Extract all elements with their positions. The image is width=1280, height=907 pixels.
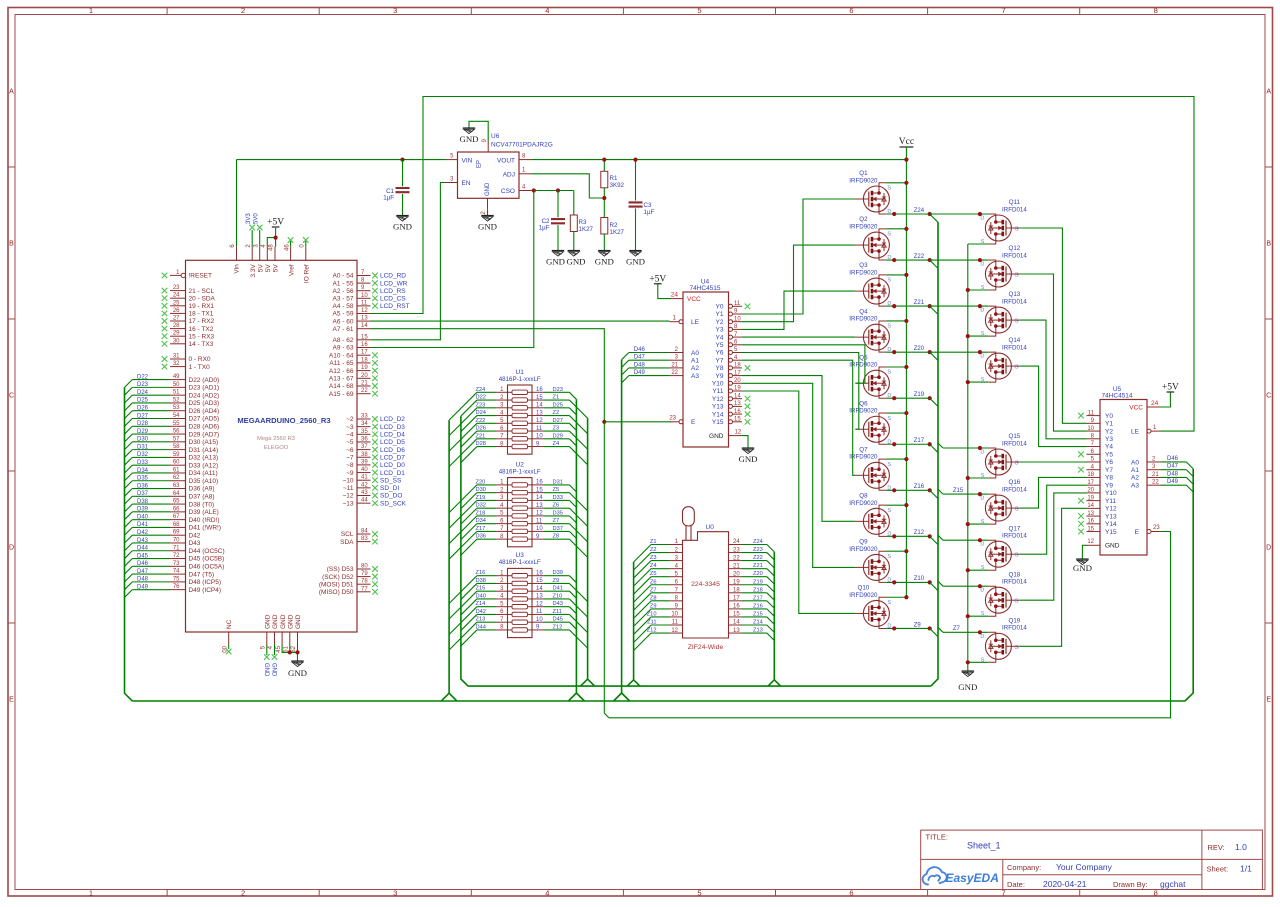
title block: [921, 830, 1263, 889]
svg-text:Z7: Z7: [553, 518, 560, 524]
svg-text:69: 69: [173, 530, 180, 536]
svg-text:13: 13: [536, 410, 543, 416]
wire Z18 at U2 pin 5: [477, 515, 496, 517]
svg-text:E: E: [1266, 697, 1271, 704]
svg-text:64: 64: [173, 491, 180, 497]
svg-text:Q14: Q14: [1009, 337, 1021, 344]
U3 pin 4: [496, 598, 508, 600]
regulator U6 NCV47701PDAJR2G body: [458, 152, 520, 198]
svg-text:12: 12: [735, 429, 742, 435]
svg-text:D23: D23: [553, 387, 563, 393]
svg-text:IRFD9020: IRFD9020: [849, 454, 878, 461]
wire A7 / E net vertical: [371, 329, 609, 718]
svg-text:D31: D31: [553, 479, 563, 485]
no-connect X U5 Y13: [1078, 513, 1084, 519]
MCU pin 7 A0 - 54: [357, 275, 371, 277]
U1 pin 15: [532, 399, 544, 401]
MCU pin 28 16 - TX2: [170, 328, 186, 330]
svg-text:12: 12: [361, 308, 368, 314]
svg-text:G: G: [1014, 645, 1018, 651]
U2 pin 3: [496, 499, 508, 501]
wire D41 at U3 pin 14: [544, 590, 569, 592]
svg-text:53: 53: [173, 405, 180, 411]
junction R1 top: [602, 158, 606, 162]
svg-text:U3: U3: [516, 552, 525, 559]
svg-text:D40: D40: [476, 593, 486, 599]
U2 pin 13: [532, 507, 544, 509]
wire Q9 drain / net Z10: [886, 581, 929, 583]
svg-text:23: 23: [1153, 525, 1160, 531]
wire U5 to Q18 gate: [1019, 493, 1086, 600]
svg-text:56: 56: [173, 429, 180, 435]
svg-text:SCL: SCL: [341, 531, 354, 538]
bus entry Z17: [930, 444, 938, 452]
U6 pin 3 EN: [446, 182, 458, 184]
svg-text:79: 79: [361, 571, 368, 577]
svg-text:D29 (AD7): D29 (AD7): [189, 431, 220, 438]
svg-text:Z17: Z17: [753, 595, 763, 601]
U1 pin 7: [496, 438, 508, 440]
svg-text:D30: D30: [476, 487, 486, 493]
MCU pin 35 ~4: [357, 433, 371, 435]
svg-text:12: 12: [1087, 539, 1094, 545]
wire D34 with bus entry: [132, 472, 170, 474]
U3 pin 1: [496, 575, 508, 577]
U4 pin 22 A3: [670, 375, 684, 377]
svg-text:D22: D22: [137, 374, 149, 380]
wire 3.3V pin to net 3V3: [251, 230, 253, 247]
svg-text:15: 15: [536, 578, 543, 584]
svg-text:(MISO) D50: (MISO) D50: [319, 589, 354, 596]
svg-text:D49 (ICP4): D49 (ICP4): [189, 587, 222, 594]
MCU pin 55 D28 (AD6): [170, 425, 186, 427]
svg-text:A13 - 67: A13 - 67: [329, 376, 354, 383]
MCU pin 36 ~5: [357, 441, 371, 443]
wire Vcc rail vertical: [905, 160, 907, 598]
svg-text:Z20: Z20: [476, 479, 486, 485]
svg-text:Z24: Z24: [753, 539, 763, 545]
svg-text:5: 5: [697, 6, 701, 15]
MCU pin 22 A15 - 69: [357, 393, 371, 395]
svg-text:Q3: Q3: [859, 262, 868, 269]
junction C1: [400, 158, 404, 162]
svg-text:Z24: Z24: [914, 208, 925, 214]
svg-text:48: 48: [269, 244, 275, 251]
wire Z16 at U3 pin 1: [477, 575, 496, 577]
bus entry Z16: [930, 490, 938, 498]
svg-text:40: 40: [361, 467, 368, 473]
svg-text:IRFD9020: IRFD9020: [849, 270, 878, 277]
wire MCU GND pins to ground: [282, 644, 297, 652]
svg-text:GND: GND: [738, 454, 757, 464]
wire NMOS source chain to ground: [967, 244, 969, 671]
MCU pin 9 A2 - 56: [357, 290, 371, 292]
MCU pin 73 D46 (OC5A): [170, 565, 186, 567]
svg-text:Z16: Z16: [753, 603, 763, 609]
svg-text:D47: D47: [137, 569, 149, 575]
svg-text:IRFD014: IRFD014: [1002, 533, 1027, 540]
svg-text:A3: A3: [1131, 482, 1139, 489]
svg-text:11: 11: [536, 609, 543, 615]
U2 resistor element 3: [508, 499, 513, 501]
wire Z10 at U0: [651, 616, 669, 618]
svg-text:S: S: [887, 462, 891, 468]
U4 pin 18 Y8: [729, 366, 733, 370]
ground symbol (U6 GND): [481, 215, 493, 217]
wire D47 at U4 A1: [629, 359, 670, 361]
U4 pin 17 Y9: [729, 374, 733, 378]
wire Z7 at U2 pin 11: [544, 523, 569, 525]
no-connect X U5 Y14: [1078, 521, 1084, 527]
svg-text:11: 11: [672, 620, 679, 626]
ground symbol (U5): [1076, 558, 1088, 560]
U0 pin 5 Z5: [669, 576, 683, 578]
svg-text:D28: D28: [476, 441, 486, 447]
svg-text:Z15: Z15: [476, 586, 486, 592]
wire Z20 at U0: [742, 576, 767, 578]
MCU pin 70 D43: [170, 542, 186, 544]
U3 pin 9: [532, 629, 544, 631]
svg-text:30: 30: [173, 338, 180, 344]
wire Z2 at U1 pin 13: [544, 415, 569, 417]
no-connect X 3V3: [249, 225, 255, 231]
svg-text:~2: ~2: [346, 416, 354, 423]
MCU pin 1 !RESET: [170, 274, 186, 276]
svg-text:Z13: Z13: [476, 617, 486, 623]
U4 pin 15 Y15: [729, 420, 733, 424]
svg-text:REV:: REV:: [1208, 843, 1225, 852]
svg-text:68: 68: [173, 522, 180, 528]
MCU pin 49 D22 (AD0): [170, 379, 186, 381]
svg-text:GND: GND: [709, 433, 724, 440]
svg-text:D31 (A14): D31 (A14): [189, 447, 219, 454]
svg-text:Y0: Y0: [716, 304, 724, 311]
U4 pin 4 Y7: [729, 358, 733, 362]
transistor Q19 IRFD014 (N-MOSFET): [985, 633, 1011, 659]
svg-text:(SS) D53: (SS) D53: [327, 566, 354, 573]
U2 resistor element 5: [508, 515, 513, 517]
svg-text:4: 4: [545, 888, 549, 897]
wire U5 to Q15 gate: [1019, 461, 1086, 463]
svg-text:SD_SS: SD_SS: [380, 477, 402, 484]
U5 pin 13 Y13: [1087, 515, 1101, 517]
svg-text:5V: 5V: [273, 264, 280, 273]
svg-text:1: 1: [89, 888, 93, 897]
bus entry Z21: [930, 306, 938, 314]
svg-text:Y14: Y14: [1105, 521, 1117, 528]
wire Z21 to Q13 drain: [930, 305, 989, 307]
wire D28 at U1 pin 8: [477, 446, 496, 448]
wire D26 at U1 pin 6: [477, 430, 496, 432]
svg-text:Y6: Y6: [716, 350, 724, 357]
bus D46-D49 vertical (U5 side): [1185, 469, 1193, 701]
U5 pin 19 Y11: [1087, 500, 1101, 502]
svg-text:TITLE:: TITLE:: [926, 833, 949, 842]
wire U4 Y6 to Q6 gate: [742, 353, 859, 430]
wire D47 at U5 A1: [1161, 469, 1187, 471]
wire D49 at U5 A3: [1161, 484, 1187, 486]
svg-text:52: 52: [173, 397, 180, 403]
svg-text:13: 13: [733, 628, 740, 634]
U0 pin 9 Z9: [669, 608, 683, 610]
svg-text:IRFD9020: IRFD9020: [849, 500, 878, 507]
U3 pin 7: [496, 621, 508, 623]
wire D23 with bus entry: [132, 386, 170, 388]
svg-text:Z20: Z20: [914, 346, 925, 352]
no-connect X U5 Y0: [1078, 413, 1084, 419]
svg-text:U0: U0: [706, 524, 715, 531]
svg-text:80: 80: [361, 564, 368, 570]
svg-text:S: S: [887, 416, 891, 422]
svg-text:VCC: VCC: [687, 296, 701, 303]
junction Z12 b: [928, 534, 932, 538]
bus bottom inner (L1): [468, 685, 931, 687]
no-connect X 5V0: [257, 225, 263, 231]
svg-text:D34 (A11): D34 (A11): [189, 470, 218, 477]
wire Q8 drain / net Z12: [886, 535, 929, 537]
MCU pin 37 ~6: [357, 449, 371, 451]
svg-text:Z2: Z2: [553, 410, 560, 416]
svg-text:LCD_RST: LCD_RST: [380, 303, 410, 310]
svg-text:IRFD9020: IRFD9020: [849, 223, 878, 230]
MCU pin 42 ~11: [357, 487, 371, 489]
svg-text:Q17: Q17: [1009, 525, 1021, 532]
svg-text:3K92: 3K92: [610, 182, 625, 189]
svg-text:GND: GND: [566, 257, 585, 267]
wire CSO to MCU A9: [371, 191, 534, 348]
svg-text:G: G: [1014, 319, 1018, 325]
bus D22-D49 vertical: [125, 387, 133, 701]
MCU pin 19 A12 - 66: [357, 370, 371, 372]
svg-text:Z21: Z21: [476, 433, 486, 439]
junction S chain Q17: [966, 568, 970, 572]
svg-text:D36: D36: [137, 483, 149, 489]
junction Vcc-VOUT: [904, 158, 908, 162]
svg-text:D: D: [980, 450, 984, 456]
svg-text:D43: D43: [189, 540, 201, 547]
MCU pin 11 A4 - 58: [357, 305, 371, 307]
U3 resistor element 8: [508, 629, 513, 631]
svg-text:11: 11: [536, 426, 543, 432]
wire Z13 at U0: [742, 632, 767, 634]
svg-text:D25: D25: [137, 398, 149, 404]
junction Q18 drain: [978, 584, 982, 588]
svg-text:D47: D47: [634, 355, 646, 361]
svg-text:GND: GND: [263, 663, 269, 677]
svg-text:Y8: Y8: [1105, 475, 1113, 482]
svg-text:A3: A3: [691, 373, 699, 380]
wire D35 with bus entry: [132, 480, 170, 482]
svg-text:2: 2: [241, 6, 245, 15]
wire Q6 source to Vcc rail: [886, 412, 906, 414]
svg-text:11: 11: [734, 301, 741, 307]
svg-text:49: 49: [173, 374, 180, 380]
svg-text:31: 31: [173, 354, 180, 360]
U4 pin 8 Y3: [729, 327, 733, 331]
MCU pin 62 D35 (A10): [170, 480, 186, 482]
wire Z20 to Q14 drain: [930, 351, 989, 353]
junction rail Q10: [904, 595, 908, 599]
svg-text:5V0: 5V0: [254, 213, 260, 224]
svg-text:D44: D44: [476, 624, 486, 630]
U5 pin 21 A2: [1147, 476, 1161, 478]
svg-text:16 - TX2: 16 - TX2: [189, 326, 214, 333]
svg-text:~13: ~13: [342, 500, 353, 507]
svg-text:D33: D33: [137, 460, 149, 466]
svg-text:Z5: Z5: [553, 487, 560, 493]
wire Q4 drain / net Z20: [886, 351, 929, 353]
wire Z5 at U0: [651, 576, 669, 578]
svg-text:15: 15: [536, 395, 543, 401]
svg-text:14: 14: [536, 586, 543, 592]
svg-text:Z8: Z8: [650, 595, 657, 601]
wire D35 at U2 pin 12: [544, 515, 569, 517]
svg-text:D43: D43: [137, 538, 149, 544]
svg-text:D49: D49: [1167, 479, 1179, 485]
svg-text:VCC: VCC: [1129, 404, 1143, 411]
no-connect X U5 Y11: [1078, 498, 1084, 504]
svg-text:5V: 5V: [265, 264, 272, 273]
wire CSO node: [531, 190, 574, 192]
junction Z19 a: [892, 396, 896, 400]
svg-text:IRFD014: IRFD014: [1002, 252, 1027, 259]
wire Q6 drain / net Z17: [886, 443, 929, 445]
svg-text:LCD_D2: LCD_D2: [380, 416, 405, 423]
wire Z6 at U0: [651, 584, 669, 586]
wire D42 with bus entry: [132, 534, 170, 536]
MCU pin 77 (MISO) D50: [357, 591, 371, 593]
U0 pin 12 Z12: [669, 632, 683, 634]
svg-text:+5V: +5V: [649, 274, 666, 284]
wire Z1 at U1 pin 15: [544, 399, 569, 401]
svg-text:Y8: Y8: [716, 365, 724, 372]
U3 pin 3: [496, 590, 508, 592]
svg-text:2: 2: [241, 888, 245, 897]
svg-text:15: 15: [733, 612, 740, 618]
svg-text:D41: D41: [553, 586, 563, 592]
svg-text:D32: D32: [137, 452, 149, 458]
U0 pin 22 Z22: [729, 560, 743, 562]
svg-text:SD_DI: SD_DI: [380, 485, 399, 492]
svg-text:70: 70: [173, 537, 180, 543]
svg-text:Z12: Z12: [553, 624, 563, 630]
junction Q17 drain: [978, 538, 982, 542]
wire D32 with bus entry: [132, 456, 170, 458]
svg-text:Y6: Y6: [1105, 459, 1113, 466]
svg-text:25: 25: [173, 300, 180, 306]
svg-text:A: A: [9, 89, 14, 96]
MCU pin 0 IO Ref (top): [305, 247, 307, 260]
svg-text:A7 - 61: A7 - 61: [333, 326, 354, 333]
junction Z19 b: [928, 396, 932, 400]
U1 pin 9: [532, 446, 544, 448]
svg-text:4816P-1-xxxLF: 4816P-1-xxxLF: [499, 376, 541, 383]
svg-text:Y3: Y3: [716, 327, 724, 334]
svg-text:D47 (T5): D47 (T5): [189, 571, 215, 578]
svg-text:6: 6: [849, 888, 853, 897]
U2 pin 15: [532, 492, 544, 494]
U2 pin 12: [532, 515, 544, 517]
svg-text:R2: R2: [610, 222, 618, 229]
svg-text:A2 - 56: A2 - 56: [333, 288, 354, 295]
wire Z15 at U3 pin 3: [477, 590, 496, 592]
svg-text:D43: D43: [553, 601, 563, 607]
bus left inner (D nets): [461, 416, 468, 686]
wire Q7 drain / net Z16: [886, 489, 929, 491]
U3 pin 14: [532, 590, 544, 592]
svg-text:1K27: 1K27: [579, 226, 594, 233]
MCU pin 4 5V (top): [266, 247, 268, 260]
wire Vin to VIN of U6: [236, 160, 238, 247]
svg-text:ggchat: ggchat: [1160, 879, 1186, 889]
junction R1-R2-ADJ: [602, 196, 606, 200]
svg-text:74HC4515: 74HC4515: [689, 285, 720, 292]
svg-text:Y4: Y4: [1105, 444, 1113, 451]
bus entry Z19: [930, 398, 938, 406]
svg-text:Q13: Q13: [1009, 291, 1021, 298]
wire U5 to Q17 gate: [1019, 485, 1086, 554]
MCU pin 32 1 - TX0: [170, 366, 186, 368]
junction rail Q1: [904, 181, 908, 185]
wire U5 to Q13 gate: [1019, 320, 1086, 439]
svg-text:D22 (AD0): D22 (AD0): [189, 377, 220, 384]
svg-text:74: 74: [173, 569, 180, 575]
wire U4 Y2 to Q2 gate: [742, 245, 855, 322]
svg-text:14 - TX3: 14 - TX3: [189, 341, 214, 348]
junction rail Q5: [904, 365, 908, 369]
transistor Q10 IRFD9020 (P-MOSFET): [863, 600, 889, 626]
wire Z21 at U1 pin 7: [477, 438, 496, 440]
wire D46 with bus entry: [132, 565, 170, 567]
svg-text:GND: GND: [272, 614, 279, 629]
MCU pin 64 D37 (A8): [170, 495, 186, 497]
U1 pin 11: [532, 430, 544, 432]
junction CSO-A9: [532, 188, 536, 192]
svg-text:Z13: Z13: [753, 628, 763, 634]
svg-text:SD_SCK: SD_SCK: [380, 500, 407, 507]
junction S chain Q13: [966, 334, 970, 338]
U2 pin 8: [496, 538, 508, 540]
wire U4 E branch: [604, 421, 671, 423]
MCU pin 21 A14 - 68: [357, 385, 371, 387]
transistor Q11 IRFD014 (N-MOSFET): [985, 215, 1011, 241]
svg-text:7: 7: [1002, 6, 1006, 15]
svg-text:23: 23: [733, 547, 740, 553]
svg-text:D41: D41: [137, 522, 149, 528]
svg-text:18 - TX1: 18 - TX1: [189, 311, 214, 318]
svg-text:GND: GND: [626, 257, 645, 267]
svg-text:C3: C3: [644, 202, 652, 209]
U5 pin 1 LE: [1147, 429, 1151, 433]
U2 pin 14: [532, 499, 544, 501]
U1 pin 13: [532, 415, 544, 417]
U2 pin 7: [496, 530, 508, 532]
svg-text:21: 21: [671, 362, 678, 368]
svg-text:35: 35: [361, 429, 368, 435]
svg-text:D42: D42: [476, 609, 486, 615]
svg-text:Vref: Vref: [288, 264, 295, 276]
svg-text:D37 (A8): D37 (A8): [189, 494, 215, 501]
svg-text:D24 (AD2): D24 (AD2): [189, 392, 220, 399]
svg-text:12: 12: [536, 418, 543, 424]
U4 pin 16 Y14: [729, 412, 733, 416]
MCU pin 12 A5 - 59: [357, 313, 371, 315]
U4 pin 1 LE: [679, 320, 683, 324]
U0 pin 19 Z19: [729, 584, 743, 586]
wire U4 Y1 to Q1 gate: [742, 199, 855, 314]
svg-text:E: E: [1135, 529, 1140, 536]
svg-text:D: D: [980, 308, 984, 314]
